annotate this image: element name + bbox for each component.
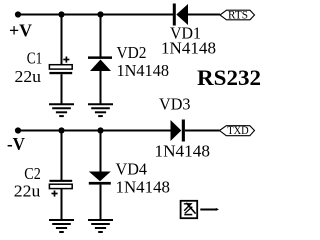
- wire VD3 to TXD: [185, 130, 220, 132]
- diode VD1: [173, 4, 188, 26]
- svg-text:TXD: TXD: [227, 125, 249, 137]
- wire +V rail: [17, 14, 173, 16]
- wire C1 top: [61, 15, 63, 65]
- svg-text:VD4: VD4: [116, 160, 148, 179]
- wire VD2 bottom: [100, 71, 102, 104]
- svg-text:VD3: VD3: [159, 95, 191, 114]
- svg-text:+V: +V: [9, 21, 32, 41]
- svg-text:C1: C1: [27, 49, 43, 68]
- node junction C1 / +V rail: [58, 11, 64, 17]
- svg-text:1N4148: 1N4148: [161, 39, 216, 58]
- wire C1 bottom: [61, 74, 63, 103]
- wire VD2 top: [100, 15, 102, 58]
- node junction VD4 / -V rail: [97, 127, 103, 133]
- wire VD4 bottom: [100, 185, 102, 220]
- svg-text:22u: 22u: [14, 182, 41, 201]
- wire C2 bottom: [61, 189, 63, 220]
- capacitor C1: [49, 65, 72, 75]
- connector TXD: [220, 125, 255, 137]
- wire C2 top: [61, 131, 63, 181]
- wire -V rail: [17, 130, 171, 132]
- connector RTS: [220, 9, 255, 21]
- svg-text:1N4148: 1N4148: [117, 61, 170, 80]
- svg-text:RS232: RS232: [197, 65, 261, 90]
- svg-text:1N4148: 1N4148: [116, 178, 171, 197]
- svg-text:-V: -V: [7, 134, 25, 154]
- node junction VD2 / +V rail: [97, 11, 103, 17]
- node -V rail left end: [15, 127, 21, 133]
- caption 图一 (Figure 1): [181, 201, 219, 218]
- svg-text:VD2: VD2: [117, 43, 147, 62]
- node +V rail left end: [15, 11, 21, 17]
- ground below VD2: [88, 104, 113, 116]
- svg-text:1N4148: 1N4148: [155, 142, 211, 161]
- capacitor C2: [49, 180, 72, 189]
- svg-text:RTS: RTS: [228, 9, 248, 21]
- capacitor C1 polarity plus: [63, 57, 69, 63]
- ground below C1: [49, 104, 74, 116]
- wire VD1 to RTS: [188, 14, 220, 16]
- ground below C2: [49, 220, 74, 232]
- diode VD3: [171, 120, 185, 142]
- svg-text:C2: C2: [24, 164, 41, 183]
- node junction C2 / -V rail: [58, 127, 64, 133]
- diode VD4: [89, 172, 111, 185]
- svg-text:22u: 22u: [15, 67, 42, 86]
- ground below VD4: [88, 220, 113, 232]
- capacitor C2 polarity plus: [52, 191, 58, 197]
- diode VD2: [88, 56, 112, 71]
- wire VD4 top: [100, 131, 102, 173]
